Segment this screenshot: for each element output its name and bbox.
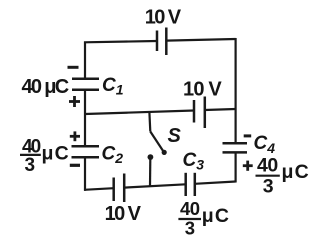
wire bottom side middle segment <box>124 184 186 187</box>
wire top side left segment <box>84 41 157 42</box>
svg-text:10 V: 10 V <box>183 78 222 100</box>
C2 polarity minus <box>70 164 80 167</box>
wire bottom side left segment <box>84 188 114 190</box>
wire top side right segment <box>166 39 235 41</box>
switch S blade <box>150 132 163 151</box>
label 40/3 uC left of C2 (fraction) <box>20 136 70 176</box>
svg-text:10 V: 10 V <box>145 6 182 28</box>
wire bottom side right segment <box>195 182 236 184</box>
svg-text:40: 40 <box>257 154 278 176</box>
wire left side upper <box>84 42 86 79</box>
C1 polarity plus <box>69 96 80 107</box>
wire right side upper <box>235 38 237 143</box>
svg-text:40: 40 <box>180 198 200 219</box>
svg-text:μC: μC <box>202 205 230 227</box>
svg-text:3: 3 <box>25 155 36 176</box>
wire left side middle <box>84 90 86 147</box>
capacitor C4 plates <box>223 143 248 152</box>
switch bottom terminal dot <box>148 154 154 160</box>
svg-text:μC: μC <box>42 143 70 165</box>
C4 polarity minus <box>244 134 252 137</box>
svg-text:40 μC: 40 μC <box>22 76 69 98</box>
C2 polarity plus <box>70 131 80 141</box>
capacitor 10V top plates <box>157 28 166 56</box>
switch S stub from middle wire <box>148 112 151 131</box>
label 40/3 uC below C3 (fraction) <box>178 198 230 238</box>
wire left side lower <box>84 157 86 191</box>
svg-text:3: 3 <box>185 217 195 238</box>
wire middle horizontal right segment <box>205 109 236 110</box>
wire from switch bottom terminal to bottom wire <box>149 160 152 187</box>
capacitor C3 plates <box>186 173 195 196</box>
switch blade tip dot <box>162 150 167 155</box>
capacitor C1 plates <box>72 79 99 90</box>
svg-text:10 V: 10 V <box>105 203 142 225</box>
capacitor C2 plates <box>72 146 100 157</box>
svg-text:μC: μC <box>282 161 310 183</box>
C4 polarity plus <box>243 161 253 171</box>
svg-text:S: S <box>168 125 182 147</box>
capacitor 10V bottom plates <box>114 174 125 203</box>
wire middle horizontal left segment <box>85 111 194 115</box>
C1 polarity minus <box>68 66 79 69</box>
label 40/3 uC right of C4 (fraction) <box>256 154 310 197</box>
capacitor 10V middle plates <box>194 97 205 129</box>
svg-text:3: 3 <box>263 176 274 198</box>
wire right side lower <box>235 152 237 182</box>
